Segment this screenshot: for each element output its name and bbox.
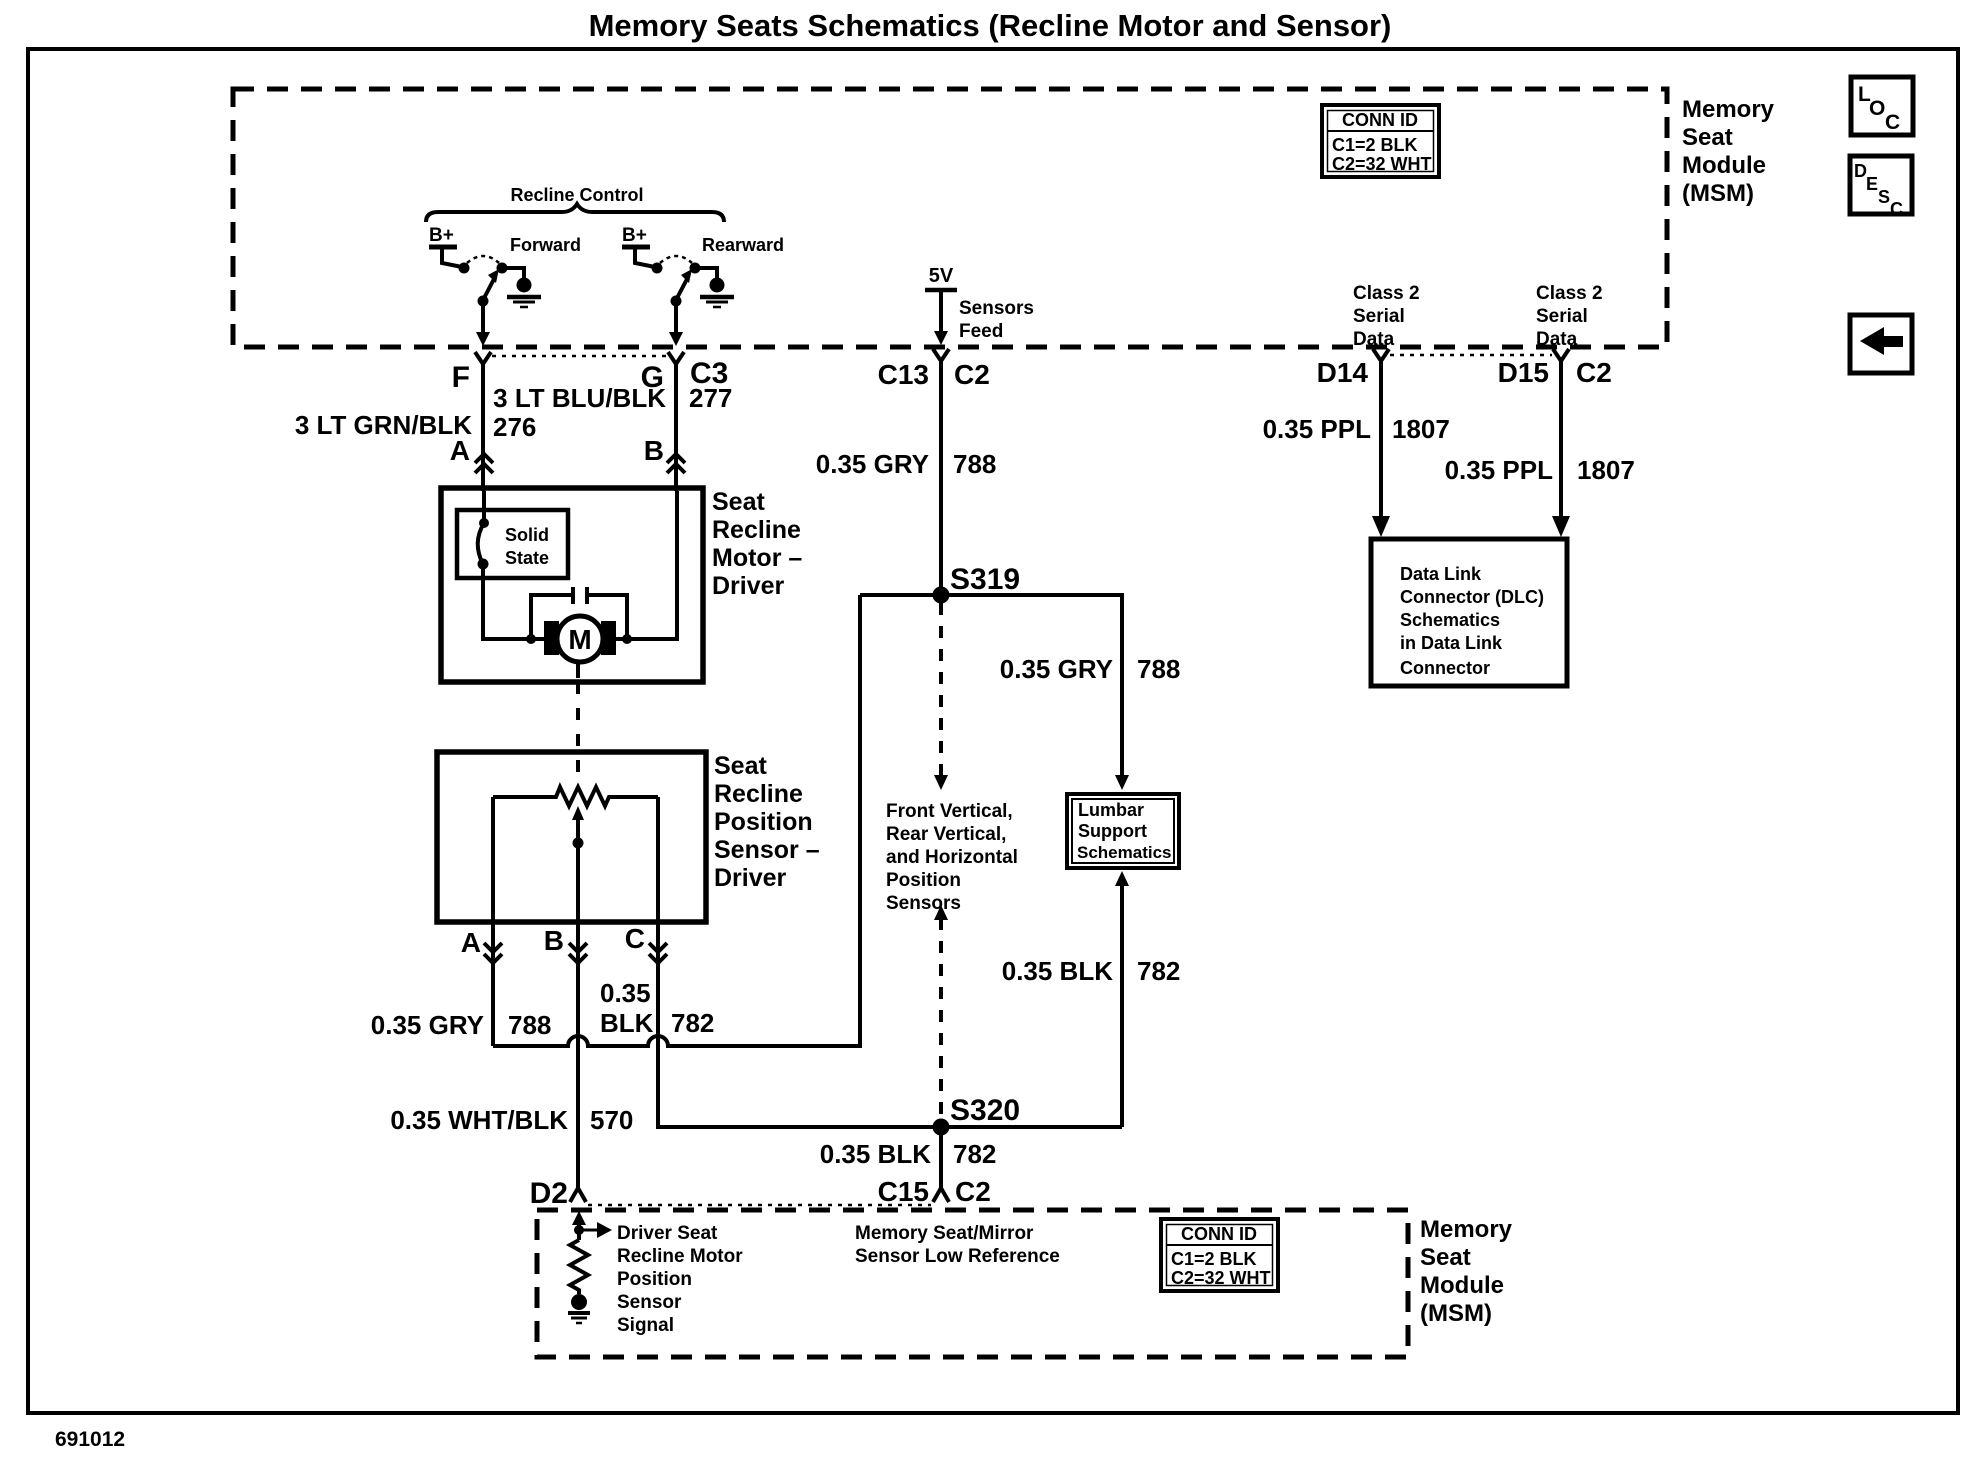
svg-text:Recline Motor: Recline Motor (617, 1246, 743, 1267)
connector C13 (933, 349, 949, 361)
svg-text:Serial: Serial (1353, 306, 1405, 327)
svg-text:CONN ID: CONN ID (1342, 110, 1418, 130)
switch blade S2 Rearward (676, 279, 687, 300)
ground ball (571, 1294, 587, 1310)
svg-text:BLK: BLK (600, 1008, 654, 1038)
switch Forward: B+ terminal (429, 225, 581, 346)
svg-text:O: O (1869, 97, 1885, 120)
svg-text:Sensor: Sensor (617, 1292, 682, 1313)
wire GRY 788 from C13 to S319 (939, 361, 943, 595)
wire C (BLK 782) down then right to S320 (658, 922, 1122, 1127)
connector F (pin F, C3) (452, 352, 491, 394)
wire contact to ground (502, 268, 524, 278)
svg-text:0.35 PPL: 0.35 PPL (1263, 414, 1372, 444)
svg-text:Class 2: Class 2 (1353, 283, 1420, 304)
svg-text:Feed: Feed (959, 321, 1003, 342)
svg-text:C2: C2 (955, 1176, 991, 1207)
svg-text:691012: 691012 (55, 1428, 125, 1451)
wiper arrow (572, 806, 584, 820)
B+ terminal bar (Forward) (429, 245, 457, 250)
Data Link Connector (DLC) box (1371, 539, 1567, 686)
svg-text:(MSM): (MSM) (1420, 1300, 1492, 1327)
dotted link D14-D15 (1390, 354, 1552, 357)
DESC icon (1850, 156, 1912, 219)
svg-text:Memory: Memory (1420, 1216, 1513, 1243)
Memory Seat Module (MSM) top dashed box (233, 89, 1667, 347)
svg-text:Rear Vertical,: Rear Vertical, (886, 824, 1006, 845)
svg-text:0.35 PPL: 0.35 PPL (1445, 455, 1554, 485)
svg-text:788: 788 (508, 1010, 551, 1040)
svg-text:Position: Position (886, 870, 961, 891)
pot right lead down (656, 797, 660, 922)
svg-text:A: A (461, 927, 481, 958)
dotted connector link F-G (492, 355, 668, 358)
switch Rearward: B+ terminal (622, 225, 784, 346)
wire A (GRY 788) down to rail (491, 922, 495, 1046)
wire B (WHT/BLK 570) down to D2 (576, 922, 580, 1188)
svg-text:782: 782 (1137, 956, 1180, 986)
label Memory Seat Module (MSM) top (1682, 96, 1775, 207)
svg-text:0.35 BLK: 0.35 BLK (1002, 956, 1113, 986)
solid state box U1 (457, 510, 568, 578)
wire from B+ to contact (635, 247, 655, 267)
Class 2 Serial Data left (1353, 283, 1420, 350)
svg-text:277: 277 (689, 383, 732, 413)
svg-text:Driver: Driver (714, 864, 787, 892)
Seat Recline Position Sensor - Driver box (437, 752, 706, 922)
svg-text:Data: Data (1353, 329, 1395, 350)
Class 2 Serial Data right (1536, 283, 1603, 350)
svg-text:B: B (644, 435, 664, 466)
wire contact to ground (695, 268, 717, 278)
switch throw dashed arc (467, 256, 499, 263)
internal sensor signal: arrow up, resistor, ground (568, 1211, 612, 1323)
resistor R (570, 1240, 588, 1294)
CONN ID table top (1322, 105, 1439, 177)
svg-text:S319: S319 (950, 563, 1020, 596)
svg-text:0.35 GRY: 0.35 GRY (816, 449, 929, 479)
svg-text:Memory Seat/Mirror: Memory Seat/Mirror (855, 1223, 1034, 1244)
splice S320 (933, 1119, 950, 1136)
svg-text:Driver Seat: Driver Seat (617, 1223, 718, 1244)
switch throw dashed arc (660, 256, 692, 263)
wire from B+ to contact (442, 247, 462, 267)
svg-text:D14: D14 (1317, 357, 1369, 388)
inline connector chevrons wire B (667, 454, 685, 473)
B+ terminal bar (Rearward) (622, 245, 650, 250)
Lumbar Support Schematics box (1067, 794, 1179, 868)
svg-text:Module: Module (1420, 1272, 1504, 1299)
svg-text:Sensor –: Sensor – (714, 836, 820, 864)
motor circle M (557, 616, 603, 662)
connector G (pin G, C3) (641, 352, 729, 394)
svg-text:Solid: Solid (505, 525, 549, 545)
potentiometer R (493, 787, 658, 806)
back arrow icon (1850, 315, 1912, 373)
inline connector chevrons wire A (475, 454, 493, 473)
dashed branch to position sensors (939, 603, 943, 776)
contact dot (652, 263, 663, 274)
label Memory Seat Module bottom (1420, 1216, 1513, 1327)
svg-text:0.35 WHT/BLK: 0.35 WHT/BLK (390, 1105, 568, 1135)
LOC icon (1851, 77, 1913, 135)
svg-text:A: A (450, 435, 470, 466)
svg-text:C1=2 BLK: C1=2 BLK (1171, 1249, 1257, 1269)
wire below S320 to C15 (939, 1127, 943, 1188)
switch blade S1 Forward (483, 279, 494, 300)
svg-text:C2=32 WHT: C2=32 WHT (1171, 1268, 1271, 1288)
svg-text:788: 788 (1137, 654, 1180, 684)
svg-text:0.35 GRY: 0.35 GRY (1000, 654, 1113, 684)
mechanical link dashed (576, 682, 580, 772)
internal labels (617, 1223, 743, 1336)
svg-text:Schematics: Schematics (1077, 843, 1172, 862)
motor M1 capacitor loop (531, 595, 627, 639)
wire A into solid state and to motor (483, 491, 545, 639)
svg-text:State: State (505, 548, 549, 568)
wire down to module edge (674, 301, 678, 333)
svg-text:Signal: Signal (617, 1315, 674, 1336)
svg-text:782: 782 (671, 1008, 714, 1038)
brace (426, 204, 724, 222)
svg-text:Seat: Seat (712, 488, 765, 516)
svg-text:CONN ID: CONN ID (1181, 1224, 1257, 1244)
svg-text:Connector (DLC): Connector (DLC) (1400, 587, 1544, 607)
svg-text:782: 782 (953, 1139, 996, 1169)
svg-text:Module: Module (1682, 152, 1766, 179)
contact dot (497, 263, 508, 274)
svg-text:Schematics: Schematics (1400, 610, 1500, 630)
motor brushes (544, 621, 559, 655)
svg-text:in Data Link: in Data Link (1400, 633, 1503, 653)
svg-text:Front Vertical,: Front Vertical, (886, 801, 1013, 822)
dotted link D2-C15 (588, 1204, 931, 1207)
ground (Forward) (517, 278, 532, 293)
svg-text:0.35: 0.35 (600, 978, 651, 1008)
Seat Recline Motor - Driver box (441, 488, 703, 682)
Memory Seat Module (MSM) bottom dashed box (537, 1210, 1408, 1357)
CONN ID table bottom (1161, 1219, 1278, 1291)
svg-text:E: E (1866, 174, 1878, 194)
svg-text:Sensor Low Reference: Sensor Low Reference (855, 1246, 1060, 1267)
svg-text:Connector: Connector (1400, 658, 1490, 678)
svg-text:M: M (568, 624, 591, 655)
wire G (674, 364, 678, 491)
svg-text:Motor –: Motor – (712, 544, 802, 572)
svg-text:and Horizontal: and Horizontal (886, 847, 1018, 868)
S319 left branch (860, 593, 941, 597)
svg-text:Forward: Forward (510, 235, 581, 255)
riser to lumbar box (1120, 885, 1124, 1127)
svg-text:Memory: Memory (1682, 96, 1775, 123)
svg-text:C1=2 BLK: C1=2 BLK (1332, 135, 1418, 155)
svg-text:Driver: Driver (712, 572, 785, 600)
svg-text:Seat: Seat (1420, 1244, 1471, 1271)
svg-text:Sensors: Sensors (886, 893, 961, 914)
svg-text:0.35 BLK: 0.35 BLK (820, 1139, 931, 1169)
svg-text:(MSM): (MSM) (1682, 180, 1754, 207)
svg-text:570: 570 (590, 1105, 633, 1135)
svg-text:S320: S320 (950, 1094, 1020, 1127)
svg-text:Sensors: Sensors (959, 298, 1034, 319)
svg-text:C: C (1890, 199, 1903, 219)
chevrons wire C down (649, 943, 667, 963)
ground (Rearward) (710, 278, 725, 293)
connector D2 (570, 1188, 586, 1202)
svg-text:Support: Support (1078, 821, 1147, 841)
chevrons wire B down (569, 943, 587, 963)
wire PPL 1807 from D15 (1559, 361, 1563, 518)
contact dot (459, 263, 470, 274)
wire B to motor (614, 491, 677, 639)
S319 right branch to lumbar (941, 595, 1122, 776)
svg-text:Data Link: Data Link (1400, 564, 1482, 584)
pot left lead down (491, 797, 495, 922)
svg-text:C2=32 WHT: C2=32 WHT (1332, 154, 1432, 174)
svg-text:C13: C13 (878, 359, 929, 390)
svg-text:Position: Position (617, 1269, 692, 1290)
svg-text:Recline: Recline (712, 516, 801, 544)
svg-text:Data: Data (1536, 329, 1578, 350)
svg-text:F: F (452, 361, 470, 394)
svg-text:Position: Position (714, 808, 813, 836)
svg-text:Seat: Seat (714, 752, 767, 780)
contact dot (690, 263, 701, 274)
svg-text:276: 276 (493, 412, 536, 442)
splice S319 (933, 587, 950, 604)
chevrons wire A down (484, 943, 502, 963)
svg-text:C2: C2 (954, 359, 990, 390)
svg-text:C15: C15 (878, 1176, 929, 1207)
svg-text:1807: 1807 (1392, 414, 1450, 444)
rail from wire A to vertical riser with hops (493, 595, 860, 1046)
svg-text:788: 788 (953, 449, 996, 479)
wire F: 3 LT GRN/BLK 276 (481, 364, 485, 491)
svg-text:Seat: Seat (1682, 124, 1733, 151)
connector D14 (1373, 349, 1389, 361)
svg-text:3 LT BLU/BLK: 3 LT BLU/BLK (493, 383, 666, 413)
wire PPL 1807 from D14 (1379, 361, 1383, 518)
svg-text:C: C (625, 923, 645, 954)
svg-text:B+: B+ (622, 225, 647, 246)
svg-text:C2: C2 (1576, 357, 1612, 388)
wire down to module edge (481, 301, 485, 333)
svg-text:Serial: Serial (1536, 306, 1588, 327)
5V sensors feed (925, 265, 1034, 345)
svg-text:Memory Seats Schematics (Recli: Memory Seats Schematics (Recline Motor a… (589, 8, 1392, 43)
svg-text:0.35 GRY: 0.35 GRY (371, 1010, 484, 1040)
svg-text:1807: 1807 (1577, 455, 1635, 485)
svg-text:5V: 5V (929, 265, 954, 287)
svg-text:S: S (1878, 187, 1890, 207)
svg-text:B: B (544, 925, 564, 956)
svg-text:C: C (1885, 111, 1900, 134)
svg-text:Rearward: Rearward (702, 235, 784, 255)
motor shaft stub (576, 660, 580, 678)
svg-text:Lumbar: Lumbar (1078, 800, 1144, 820)
svg-text:D15: D15 (1498, 357, 1549, 388)
svg-text:Class 2: Class 2 (1536, 283, 1603, 304)
svg-text:D2: D2 (530, 1177, 568, 1210)
connector D15 (1553, 349, 1569, 361)
svg-text:Recline: Recline (714, 780, 803, 808)
svg-text:B+: B+ (429, 225, 454, 246)
svg-text:3 LT GRN/BLK: 3 LT GRN/BLK (295, 410, 472, 440)
